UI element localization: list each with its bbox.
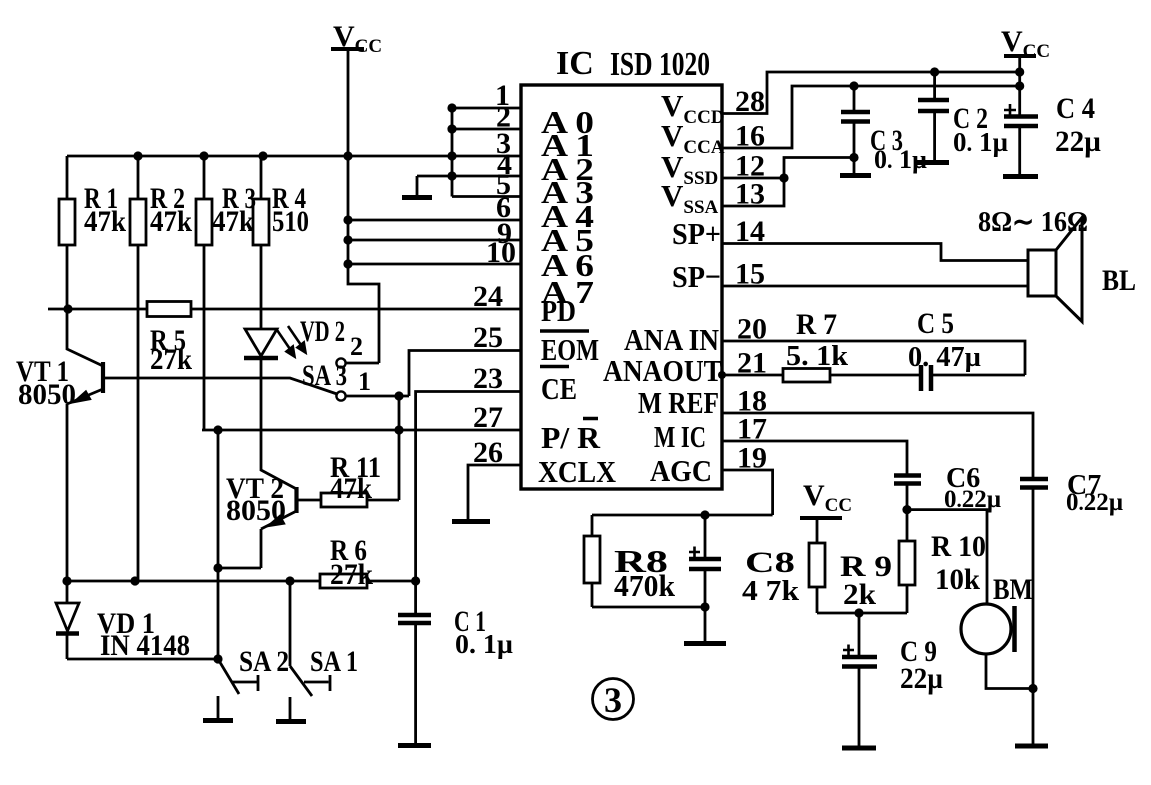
svg-text:26: 26 — [473, 436, 503, 469]
svg-text:14: 14 — [735, 215, 765, 248]
svg-text:0. 1µ: 0. 1µ — [874, 145, 927, 174]
svg-text:2: 2 — [350, 332, 363, 361]
svg-text:IC: IC — [556, 45, 594, 82]
svg-text:5. 1k: 5. 1k — [786, 341, 848, 372]
svg-text:10: 10 — [486, 236, 516, 269]
svg-text:BL: BL — [1102, 264, 1136, 297]
svg-text:8050: 8050 — [18, 378, 76, 411]
svg-text:0. 47µ: 0. 47µ — [908, 342, 981, 373]
svg-text:R 7: R 7 — [796, 308, 837, 341]
svg-text:47k: 47k — [150, 205, 192, 238]
svg-text:EOM: EOM — [541, 332, 599, 367]
svg-text:R 10: R 10 — [931, 530, 986, 563]
svg-text:ISD 1020: ISD 1020 — [610, 46, 710, 83]
svg-text:PD: PD — [541, 293, 576, 328]
svg-text:SA 2: SA 2 — [239, 645, 289, 678]
svg-text:20: 20 — [737, 313, 767, 346]
svg-text:ANAOUT: ANAOUT — [603, 353, 722, 388]
svg-text:4 7k: 4 7k — [742, 576, 799, 607]
svg-text:XCLX: XCLX — [538, 454, 617, 489]
svg-text:22µ: 22µ — [1055, 125, 1101, 158]
svg-text:10k: 10k — [935, 563, 980, 596]
svg-text:P/ R: P/ R — [541, 420, 601, 455]
svg-text:C8: C8 — [745, 546, 795, 579]
svg-text:M IC: M IC — [654, 419, 706, 454]
svg-text:24: 24 — [473, 280, 503, 313]
svg-text:23: 23 — [473, 362, 503, 395]
svg-text:28: 28 — [735, 85, 765, 118]
svg-text:ANA IN: ANA IN — [624, 322, 719, 357]
svg-text:27k: 27k — [150, 343, 192, 376]
svg-text:CE: CE — [541, 371, 577, 406]
svg-text:22µ: 22µ — [900, 662, 943, 695]
svg-text:47k: 47k — [212, 205, 254, 238]
svg-text:2k: 2k — [843, 578, 876, 611]
svg-text:VD 2: VD 2 — [300, 315, 345, 348]
svg-text:1: 1 — [358, 367, 371, 396]
svg-text:BM: BM — [993, 573, 1033, 606]
svg-text:SA 1: SA 1 — [310, 645, 358, 678]
svg-text:47k: 47k — [330, 472, 372, 505]
svg-text:0.22µ: 0.22µ — [944, 486, 1001, 513]
svg-text:15: 15 — [735, 258, 765, 291]
svg-text:IN 4148: IN 4148 — [100, 629, 190, 662]
svg-text:SP+: SP+ — [672, 216, 721, 251]
svg-text:47k: 47k — [84, 205, 126, 238]
svg-text:25: 25 — [473, 321, 503, 354]
svg-text:SP−: SP− — [672, 259, 721, 294]
svg-text:8050: 8050 — [226, 494, 286, 527]
svg-text:0.22µ: 0.22µ — [1066, 489, 1123, 516]
svg-text:19: 19 — [737, 442, 767, 475]
svg-text:21: 21 — [737, 347, 767, 380]
svg-text:27: 27 — [473, 401, 503, 434]
svg-text:0. 1µ: 0. 1µ — [455, 629, 513, 659]
svg-text:470k: 470k — [614, 568, 676, 603]
svg-text:13: 13 — [735, 178, 765, 211]
svg-text:3: 3 — [604, 680, 622, 720]
svg-text:510: 510 — [272, 205, 309, 238]
svg-text:SA 3: SA 3 — [302, 359, 347, 392]
svg-text:AGC: AGC — [650, 453, 712, 488]
svg-text:0. 1µ: 0. 1µ — [953, 127, 1009, 157]
svg-text:27k: 27k — [330, 558, 373, 591]
svg-text:M REF: M REF — [638, 385, 719, 420]
svg-text:C 4: C 4 — [1056, 92, 1095, 125]
svg-text:C 5: C 5 — [917, 307, 954, 340]
svg-text:8Ω∼ 16Ω: 8Ω∼ 16Ω — [978, 207, 1088, 238]
svg-text:16: 16 — [735, 120, 765, 153]
